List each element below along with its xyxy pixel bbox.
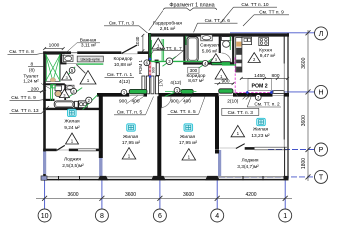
klimate icon room3 (184, 124, 193, 131)
green riser sanuzel wall (185, 36, 187, 45)
svg-text:2(10): 2(10) (227, 98, 239, 104)
kitchen fridge counter column (236, 38, 242, 73)
svg-text:900: 900 (151, 67, 155, 73)
svg-text:1: 1 (87, 78, 90, 83)
svg-text:9,24 м²: 9,24 м² (64, 125, 80, 131)
bottom dimension line (36, 197, 292, 199)
green diagonal circle4 sanuzel (198, 59, 212, 69)
triangle marker room2 1 (122, 148, 136, 159)
axis line vertical 10 (44, 176, 46, 209)
green pipe under shkaf (77, 63, 103, 65)
circle marker 1 door1 (121, 90, 127, 96)
axis circle 10 (38, 209, 51, 222)
green diagonal at radiator1 (165, 90, 181, 97)
toilet wc near kitchen (222, 37, 231, 41)
niche jamb post 3 (151, 76, 154, 94)
svg-text:Жилая: Жилая (64, 119, 80, 125)
wall room1 loggia divider (43, 149, 57, 152)
wall axis8 pier hatched (99, 158, 102, 176)
blue diamond tick (246, 91, 250, 95)
opening in top wall at bathroom (71, 52, 77, 54)
niche jamb post 4 (155, 76, 158, 94)
svg-text:Р: Р (319, 147, 324, 154)
kitchen sink counter (242, 37, 252, 44)
wall divider garderob sanuzel (183, 36, 185, 65)
green pipe horizontal to sanuzel (151, 60, 212, 62)
svg-text:3,11 м²: 3,11 м² (81, 43, 97, 49)
axis circle L (315, 27, 328, 40)
window right kitchen-loggia (283, 64, 285, 92)
wall stub right of sanuzel door (230, 62, 234, 64)
triangle marker hall 1 (80, 71, 96, 84)
loggia mullion ticks (58, 176, 60, 180)
wall axis4 vertical (215, 96, 219, 150)
wall kitchen bottom segment (233, 93, 273, 97)
wall bathroom bottom (y63) (60, 62, 66, 64)
bottom pier at axis 6 (151, 176, 165, 180)
svg-text:8,67 м²: 8,67 м² (188, 78, 204, 84)
svg-text:Ванная: Ванная (80, 37, 97, 43)
washbasin hall niche (66, 85, 74, 90)
kitchen door threshold (219, 95, 233, 97)
svg-text:8: 8 (100, 213, 104, 220)
svg-text:Т: Т (319, 175, 324, 182)
svg-text:Жилая: Жилая (253, 127, 269, 133)
green pipe vertical along corridor wall (149, 34, 151, 61)
svg-text:3600: 3600 (183, 192, 194, 198)
svg-text:РОМ 1: РОМ 1 (138, 59, 143, 74)
axis circle 4 (211, 209, 224, 222)
wall corridor bottom east of niche (158, 93, 218, 97)
POM2 box (248, 79, 271, 91)
svg-text:1800: 1800 (301, 158, 307, 169)
wall tub band bottom / room1 top (43, 108, 101, 110)
svg-text:Шкаф-купе: Шкаф-купе (80, 58, 100, 62)
bottom facade band: outer line (41, 179, 289, 181)
door swing room1 vertical leaf (159, 96, 162, 107)
triangle marker bathroom 3 (62, 71, 72, 80)
kitchen door swing arc (233, 92, 237, 96)
axis line horizontal P dashed (268, 149, 315, 151)
svg-text:Л: Л (319, 31, 324, 38)
svg-text:4: 4 (215, 213, 219, 220)
door threshold room1-loggia (57, 149, 69, 151)
door threshold room4-loggia (219, 147, 236, 149)
door arc room1 (160, 97, 171, 108)
wall axis6 vertical (157, 96, 161, 176)
wall loggia right inner (284, 147, 286, 177)
svg-text:Лоджия: Лоджия (64, 156, 81, 162)
wall outer right: outer face line (287, 33, 289, 179)
door threshold corridor top (121, 53, 137, 55)
axis circle T (315, 170, 328, 183)
wall axis8 vertical (99, 96, 103, 158)
wall top-left horizontal (43, 51, 71, 54)
washing machine (79, 101, 88, 108)
black junction box on pipe (155, 60, 159, 63)
svg-text:1,24 м²: 1,24 м² (23, 78, 39, 84)
door leaf sanuzel green (211, 62, 230, 65)
svg-text:Жилая: Жилая (123, 134, 139, 140)
axis line vertical 8 (101, 176, 103, 209)
window room4-loggia (255, 146, 288, 148)
niche jamb post 1 (142, 76, 145, 94)
door leaf room1 from corridor green (129, 89, 147, 93)
dim arrow 170 (156, 73, 160, 77)
triangle marker corridor867 1 (215, 69, 227, 79)
wall outer left vertical (43, 51, 46, 151)
circle marker 3 (166, 58, 173, 65)
kitchen stove (259, 37, 269, 45)
svg-text:170: 170 (158, 79, 163, 87)
window room1-loggia (78, 148, 96, 150)
bottom pier at axis 4 (205, 176, 219, 180)
axis circle 8 (95, 209, 108, 222)
POM1 red dashed line (149, 62, 152, 76)
svg-text:См. ТТ. п. 3: См. ТТ. п. 3 (228, 110, 254, 116)
triangle marker room1 1 (66, 133, 79, 144)
wall top horizontal main (148, 33, 289, 36)
callout TT3 bottom (222, 108, 259, 115)
axis line vertical 1 (284, 176, 286, 209)
green diagonal circle4 toilet (67, 88, 82, 99)
green riser pipes left (50, 84, 52, 100)
svg-text:3600: 3600 (67, 192, 78, 198)
bathroom door opening (67, 62, 78, 64)
axis line horizontal T dashed (219, 176, 315, 178)
door arc wc nook (222, 53, 232, 62)
triangle marker room3 1 (182, 149, 196, 160)
svg-text:3600: 3600 (301, 57, 307, 68)
POM2 magenta dashed riser (234, 58, 236, 94)
blue diamond tick axis N (271, 90, 275, 94)
wall corridor bottom mid segment (144, 93, 147, 97)
svg-text:4200: 4200 (245, 192, 256, 198)
circle marker 4 sanuzel (202, 60, 208, 66)
svg-text:Лоджия: Лоджия (242, 158, 259, 164)
triangle marker toilet 3 (59, 89, 69, 98)
green diagonal circle3 sanuzel pipe (163, 57, 176, 67)
klimate icon room4 (257, 118, 266, 125)
svg-text:1030: 1030 (135, 36, 140, 46)
right dimension line (307, 30, 309, 181)
svg-text:Санузел: Санузел (200, 43, 219, 49)
bottom right corner pier (284, 176, 289, 180)
svg-text:(8): (8) (29, 68, 35, 74)
svg-text:400: 400 (183, 99, 191, 105)
svg-text:2,5(3,5)м²: 2,5(3,5)м² (62, 163, 84, 169)
wall toilet bottom (43, 99, 54, 101)
washbasin sanuzel (201, 35, 212, 41)
door leaf room4-loggia (236, 144, 245, 149)
circle marker 6 (144, 60, 150, 66)
axis line vertical 6 (159, 176, 161, 209)
door swing bathroom (76, 64, 85, 73)
wall stub room1-loggia east (96, 149, 101, 152)
wall toilet top (43, 83, 65, 85)
svg-text:Фрагмент 1 плана: Фрагмент 1 плана (169, 3, 214, 9)
wall outer right: inner face mid (283, 93, 285, 139)
wardrobe shkaf-kupe box (77, 56, 103, 62)
wall outer right: inner face kitchen (283, 34, 285, 64)
svg-text:Жилая: Жилая (180, 134, 196, 140)
svg-text:9,47 м²: 9,47 м² (260, 53, 276, 59)
svg-text:5,06 м²: 5,06 м² (202, 48, 218, 54)
svg-text:17,95 м²: 17,95 м² (122, 140, 141, 146)
wall axis4 pier hatched (218, 150, 221, 176)
niche door leaf vertical (156, 63, 159, 76)
circle marker 2 (86, 97, 92, 103)
kitchen counter tan block (236, 42, 241, 47)
washbasin bathroom (63, 55, 73, 61)
corridor bottom door1 threshold (129, 95, 147, 97)
window right room4 (283, 140, 285, 148)
axis circle N (315, 85, 328, 98)
vent shaft box (46, 54, 61, 81)
svg-text:1000: 1000 (49, 42, 60, 48)
triangle marker garderob 1 (152, 38, 165, 49)
bottom pier at axis 8 (98, 176, 108, 180)
blue tick bottom of riser band (149, 75, 151, 77)
wall sanuzel bottom (183, 62, 211, 64)
axis line vertical 4 (216, 176, 218, 209)
axis circle 1 (279, 209, 292, 222)
svg-text:1: 1 (283, 213, 287, 220)
circle marker 5 (69, 67, 75, 73)
svg-text:4(12): 4(12) (170, 80, 182, 86)
svg-text:300: 300 (190, 68, 198, 73)
svg-text:3600: 3600 (125, 192, 136, 198)
svg-text:См. ТТ. п. 6: См. ТТ. п. 6 (205, 18, 231, 24)
bottom left corner pier hatched (41, 176, 47, 180)
svg-text:10: 10 (41, 213, 49, 220)
svg-text:6: 6 (158, 213, 162, 220)
svg-text:13,23 м²: 13,23 м² (251, 133, 270, 139)
klimate icon room1 (68, 109, 77, 116)
wall vent shaft right vertical (60, 54, 62, 64)
circle marker 1 door2 (174, 87, 180, 93)
bottom facade band: inner window line (41, 176, 289, 178)
door leaf room2 from corridor green (181, 89, 193, 93)
blue diamond tick right (270, 91, 274, 95)
klimate icon room2 (127, 124, 136, 131)
wall raised section left vertical (148, 33, 151, 77)
door leaf top of corridor (122, 45, 137, 53)
circle marker 4 toilet (71, 88, 77, 94)
POM2 magenta dashed run (235, 91, 271, 93)
bathtub sanuzel vertical (187, 37, 198, 62)
triangle marker sanuzel 3 (211, 54, 222, 63)
axis circle P (315, 143, 328, 156)
axis line horizontal N (273, 91, 315, 93)
svg-text:РОМ 2: РОМ 2 (252, 83, 268, 89)
svg-text:17,95 м²: 17,95 м² (179, 140, 198, 146)
door leaf room1-loggia (57, 145, 65, 150)
green box left (52, 85, 56, 88)
door leaf kitchen green (219, 89, 233, 93)
green diagonal circle2 (83, 95, 98, 110)
axis circle 6 (153, 209, 166, 222)
fragment brace (164, 8, 217, 11)
wall corridor bottom west segment (97, 93, 129, 97)
cabinet box beside tub (75, 101, 79, 107)
wall toilet right vertical (64, 84, 66, 100)
wall mid stub room1-loggia (69, 149, 78, 152)
bathtub horizontal (lower flat) (54, 101, 74, 108)
wall divider wc kitchen (232, 36, 234, 64)
svg-text:Коридор: Коридор (114, 56, 133, 62)
svg-text:Кухня: Кухня (259, 48, 272, 54)
triangle marker kitchen 2 (248, 53, 260, 63)
toilet in WC room (55, 86, 62, 91)
svg-text:2,91 м²: 2,91 м² (160, 26, 176, 32)
green riser garderob (161, 39, 163, 61)
wall left loggia pier hatched (43, 152, 46, 175)
vent shaft green cross (46, 54, 53, 81)
svg-text:10,88 м²: 10,88 м² (114, 62, 133, 68)
blue tick top of riser band (149, 58, 151, 60)
green diagonal circle5 (64, 67, 75, 79)
axis line horizontal L (230, 32, 315, 34)
green pipe kitchen riser (229, 36, 231, 50)
triangle marker room4 1 (231, 125, 245, 136)
niche jamb post 2 (146, 76, 149, 94)
wall room4 loggia stub (245, 147, 255, 150)
svg-text:4(12): 4(12) (119, 79, 131, 85)
wall divider sanuzel wc (219, 36, 221, 54)
svg-text:3,3(4,7)м²: 3,3(4,7)м² (237, 164, 259, 170)
svg-text:Н: Н (318, 90, 323, 97)
dim 300 boxed (188, 67, 199, 73)
svg-text:3600: 3600 (301, 115, 307, 126)
svg-text:Гардеробная: Гардеробная (153, 21, 182, 27)
circle marker 7 (255, 95, 261, 101)
green pipe near kitchen door (165, 91, 196, 93)
